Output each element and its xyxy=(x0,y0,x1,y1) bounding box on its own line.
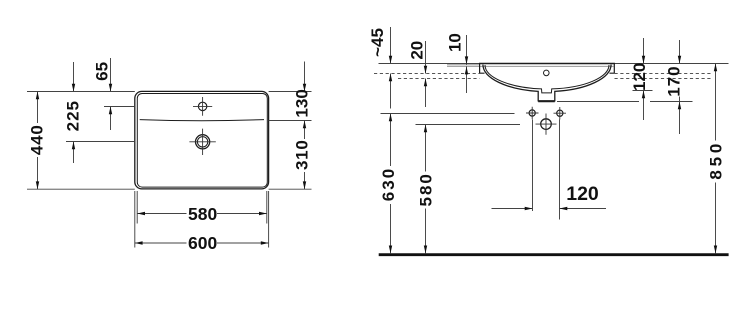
svg-text:630: 630 xyxy=(379,167,398,201)
svg-text:580: 580 xyxy=(188,204,217,224)
svg-text:225: 225 xyxy=(63,100,82,131)
svg-text:440: 440 xyxy=(27,124,46,155)
svg-text:130: 130 xyxy=(292,89,311,117)
svg-text:850: 850 xyxy=(706,140,725,180)
svg-text:120: 120 xyxy=(630,63,649,91)
svg-text:310: 310 xyxy=(292,140,311,170)
svg-text:170: 170 xyxy=(665,65,684,96)
svg-text:120: 120 xyxy=(566,183,599,205)
svg-text:10: 10 xyxy=(445,33,464,52)
svg-text:600: 600 xyxy=(188,233,217,253)
svg-text:20: 20 xyxy=(407,41,426,60)
svg-text:65: 65 xyxy=(93,62,112,81)
svg-text:~45: ~45 xyxy=(368,28,387,57)
svg-text:580: 580 xyxy=(416,172,435,206)
